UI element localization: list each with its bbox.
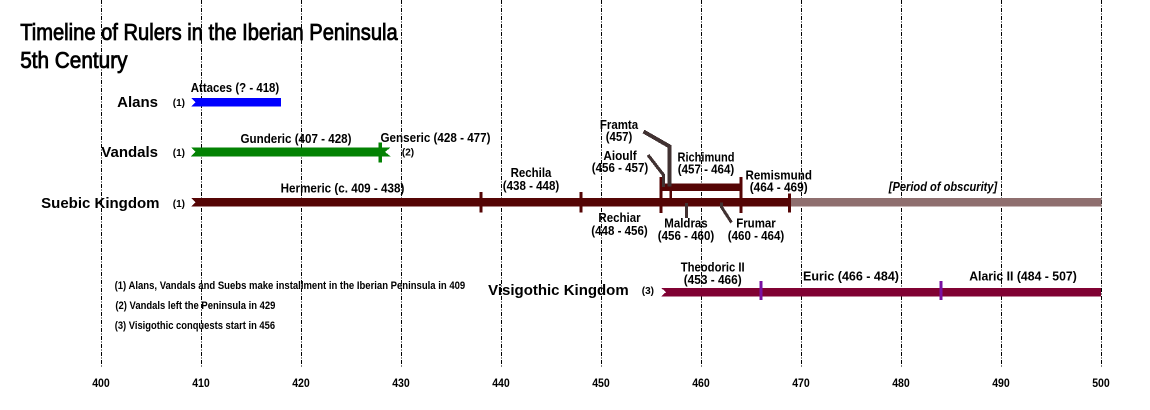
svg-text:Euric (466 - 484): Euric (466 - 484) (803, 269, 899, 284)
svg-text:(457 - 464): (457 - 464) (678, 162, 735, 177)
gridline 490 (1001, 0, 1003, 367)
svg-text:Alaric II (484 - 507): Alaric II (484 - 507) (969, 269, 1077, 284)
svg-text:(3) Visigothic conquests start: (3) Visigothic conquests start in 456 (115, 320, 275, 332)
gridline 500 (1101, 0, 1103, 367)
bar period of obscurity (mauve 469-500) (791, 198, 1102, 207)
bar Attaces (blue) (191, 98, 281, 107)
svg-text:410: 410 (192, 378, 210, 390)
svg-text:Visigothic Kingdom: Visigothic Kingdom (488, 282, 629, 299)
svg-text:Alans: Alans (117, 94, 158, 111)
svg-text:(460 - 464): (460 - 464) (728, 228, 785, 243)
gridline 420 (301, 0, 303, 367)
leader Framta (644, 132, 670, 187)
bar Suebic dark (409-469) (191, 198, 791, 207)
tick 448 (580, 192, 583, 213)
gridline 480 (901, 0, 903, 367)
gridline 470 (801, 0, 803, 367)
leader Maldras (685, 203, 688, 218)
svg-text:400: 400 (92, 378, 110, 390)
svg-text:(464 - 469): (464 - 469) (750, 180, 808, 195)
gridline 430 (401, 0, 403, 367)
tick 438 (480, 192, 483, 213)
svg-text:(438 - 448): (438 - 448) (503, 178, 560, 193)
tick 428 (green) (379, 143, 382, 163)
connector 457 (670, 191, 673, 199)
svg-text:Gunderic (407 - 428): Gunderic (407 - 428) (241, 131, 352, 146)
svg-text:470: 470 (792, 378, 810, 390)
svg-text:420: 420 (292, 378, 310, 390)
bar Gunderic (green) (191, 148, 391, 157)
svg-text:460: 460 (692, 378, 710, 390)
svg-text:480: 480 (892, 378, 910, 390)
svg-text:(1): (1) (173, 98, 185, 109)
svg-text:(456 - 460): (456 - 460) (658, 228, 715, 243)
svg-text:Timeline of Rulers in the Iber: Timeline of Rulers in the Iberian Penins… (20, 19, 398, 45)
tick 464 (tall) (740, 177, 743, 213)
svg-text:Genseric (428 - 477): Genseric (428 - 477) (381, 130, 491, 145)
svg-text:(2): (2) (402, 148, 414, 159)
tick 466 (purple) (760, 281, 763, 300)
svg-text:Attaces (? - 418): Attaces (? - 418) (191, 80, 280, 95)
bar Visigothic (wine 456-500) (661, 288, 1101, 297)
leader Frumar (722, 203, 732, 223)
svg-text:[Period of obscurity]: [Period of obscurity] (888, 179, 998, 194)
leader Aioulf (648, 155, 664, 187)
gridline 460 (701, 0, 703, 367)
tick 469 (788, 194, 791, 213)
svg-text:Suebic Kingdom: Suebic Kingdom (41, 195, 159, 212)
svg-text:(1) Alans, Vandals and Suebs m: (1) Alans, Vandals and Suebs make instal… (115, 280, 466, 292)
svg-text:(453 - 466): (453 - 466) (684, 272, 742, 287)
svg-text:(457): (457) (606, 129, 633, 144)
svg-text:(448 - 456): (448 - 456) (591, 223, 648, 238)
gridline 440 (501, 0, 503, 367)
tick 484 (purple) (940, 281, 943, 300)
svg-text:440: 440 (492, 378, 510, 390)
svg-text:(1): (1) (173, 148, 185, 159)
svg-text:450: 450 (592, 378, 610, 390)
tick 456 (tall) (660, 177, 663, 213)
svg-text:(456 - 457): (456 - 457) (592, 160, 649, 175)
svg-text:5th Century: 5th Century (20, 47, 128, 73)
bar Richimund (upper 456-464) (660, 183, 742, 191)
svg-text:Vandals: Vandals (101, 144, 158, 161)
gridline 450 (601, 0, 603, 367)
svg-text:490: 490 (992, 378, 1010, 390)
svg-text:(3): (3) (642, 286, 654, 297)
gridline 400 (101, 0, 103, 367)
svg-text:500: 500 (1092, 378, 1110, 390)
svg-text:Hermeric (c. 409 - 438): Hermeric (c. 409 - 438) (281, 181, 405, 196)
svg-text:430: 430 (392, 378, 410, 390)
svg-text:(1): (1) (173, 199, 185, 210)
gridline 410 (201, 0, 203, 367)
svg-text:(2) Vandals left the Peninsula: (2) Vandals left the Peninsula in 429 (115, 300, 275, 312)
